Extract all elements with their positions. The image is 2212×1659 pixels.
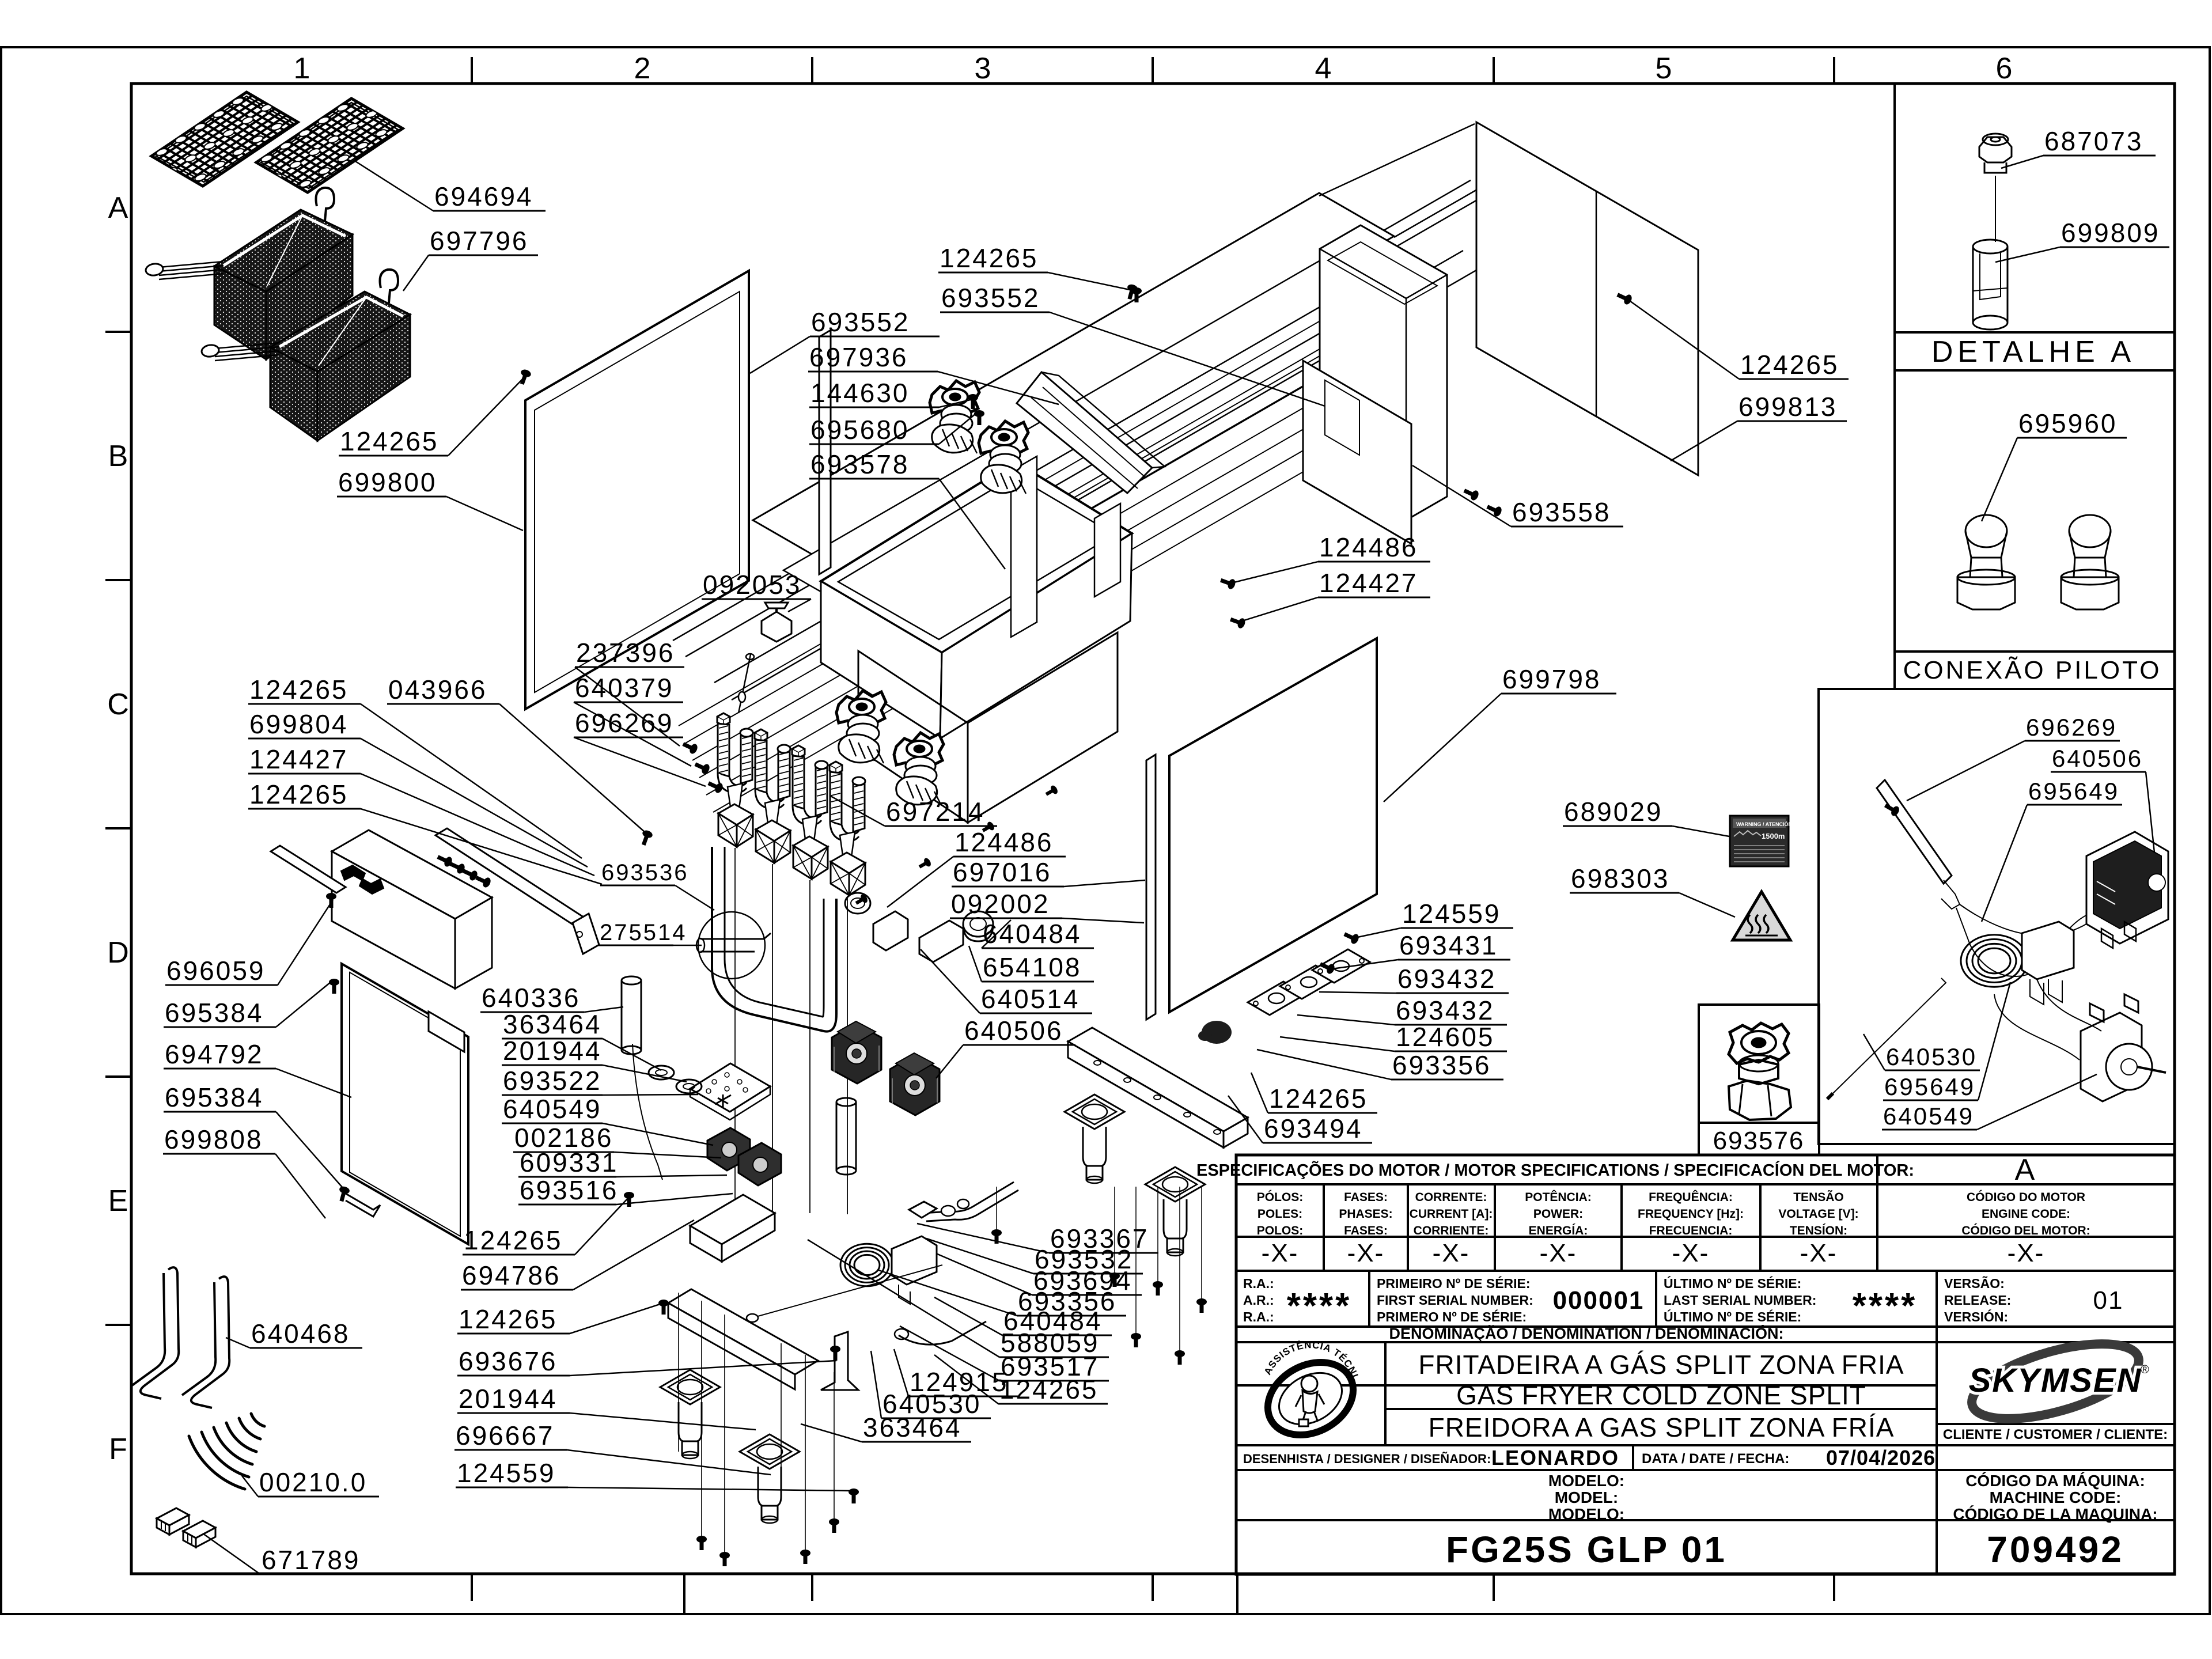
svg-text:ENERGÍA:: ENERGÍA: bbox=[1529, 1224, 1588, 1237]
svg-text:MODEL:: MODEL: bbox=[1555, 1488, 1618, 1506]
svg-text:124427: 124427 bbox=[1319, 568, 1418, 598]
svg-text:693676: 693676 bbox=[459, 1346, 558, 1376]
svg-text:CÓDIGO DA MÁQUINA:: CÓDIGO DA MÁQUINA: bbox=[1965, 1472, 2145, 1490]
svg-text:F: F bbox=[109, 1433, 127, 1466]
svg-text:01: 01 bbox=[2093, 1286, 2124, 1315]
svg-text:POLOS:: POLOS: bbox=[1257, 1224, 1304, 1237]
svg-text:FASES:: FASES: bbox=[1344, 1224, 1388, 1237]
svg-text:B: B bbox=[108, 440, 128, 473]
svg-text:FREIDORA A GAS SPLIT ZONA FRÍA: FREIDORA A GAS SPLIT ZONA FRÍA bbox=[1429, 1412, 1895, 1442]
svg-text:695649: 695649 bbox=[2028, 778, 2119, 805]
svg-text:696667: 696667 bbox=[456, 1421, 555, 1450]
svg-text:LEONARDO: LEONARDO bbox=[1491, 1446, 1619, 1469]
svg-text:124559: 124559 bbox=[457, 1458, 556, 1488]
svg-text:TENSÃO: TENSÃO bbox=[1793, 1191, 1844, 1204]
svg-text:VERSÃO:: VERSÃO: bbox=[1944, 1275, 2005, 1291]
svg-text:CÓDIGO DE LA MAQUINA:: CÓDIGO DE LA MAQUINA: bbox=[1953, 1505, 2157, 1523]
svg-text:ESPECIFICAÇÕES DO MOTOR / MOTO: ESPECIFICAÇÕES DO MOTOR / MOTOR SPECIFIC… bbox=[1196, 1160, 1914, 1180]
svg-text:A: A bbox=[2015, 1153, 2035, 1187]
svg-text:697936: 697936 bbox=[809, 342, 908, 372]
svg-text:PRIMERO Nº DE SÉRIE:: PRIMERO Nº DE SÉRIE: bbox=[1377, 1309, 1527, 1324]
svg-text:693494: 693494 bbox=[1264, 1113, 1363, 1143]
svg-text:4: 4 bbox=[1315, 52, 1332, 85]
svg-text:CORRENTE:: CORRENTE: bbox=[1415, 1191, 1487, 1204]
svg-text:640506: 640506 bbox=[964, 1016, 1063, 1046]
svg-text:696269: 696269 bbox=[575, 708, 674, 738]
svg-text:POTÊNCIA:: POTÊNCIA: bbox=[1525, 1190, 1592, 1204]
svg-text:275514: 275514 bbox=[600, 920, 687, 945]
svg-text:MODELO:: MODELO: bbox=[1548, 1472, 1624, 1490]
svg-text:124265: 124265 bbox=[1740, 350, 1839, 380]
svg-text:2: 2 bbox=[634, 52, 651, 85]
svg-text:696269: 696269 bbox=[2026, 714, 2117, 741]
svg-text:CURRENT [A]:: CURRENT [A]: bbox=[1410, 1207, 1493, 1221]
svg-text:000001: 000001 bbox=[1553, 1286, 1645, 1315]
svg-text:693432: 693432 bbox=[1397, 964, 1497, 994]
svg-text:PÓLOS:: PÓLOS: bbox=[1257, 1190, 1304, 1204]
svg-text:124265: 124265 bbox=[340, 426, 439, 456]
svg-text:FASES:: FASES: bbox=[1344, 1191, 1388, 1204]
svg-text:654108: 654108 bbox=[983, 952, 1082, 982]
svg-text:-X-: -X- bbox=[1262, 1239, 1299, 1267]
svg-text:PRIMEIRO Nº DE SÉRIE:: PRIMEIRO Nº DE SÉRIE: bbox=[1377, 1275, 1531, 1291]
svg-text:693356: 693356 bbox=[1392, 1050, 1491, 1080]
svg-text:CÓDIGO DO MOTOR: CÓDIGO DO MOTOR bbox=[1967, 1190, 2085, 1204]
svg-text:609331: 609331 bbox=[520, 1147, 619, 1177]
svg-text:ÚLTIMO Nº DE SÉRIE:: ÚLTIMO Nº DE SÉRIE: bbox=[1664, 1309, 1801, 1324]
svg-text:640379: 640379 bbox=[575, 673, 674, 703]
svg-text:124265: 124265 bbox=[464, 1225, 563, 1255]
svg-text:124265: 124265 bbox=[249, 779, 349, 809]
svg-text:671789: 671789 bbox=[262, 1545, 361, 1575]
svg-text:124265: 124265 bbox=[940, 243, 1039, 273]
svg-text:693578: 693578 bbox=[810, 449, 910, 479]
svg-text:-X-: -X- bbox=[1800, 1239, 1838, 1267]
svg-text:00210.0: 00210.0 bbox=[259, 1467, 367, 1497]
svg-text:07/04/2026: 07/04/2026 bbox=[1826, 1446, 1935, 1469]
svg-text:CÓDIGO DEL MOTOR:: CÓDIGO DEL MOTOR: bbox=[1961, 1224, 2090, 1237]
svg-text:124486: 124486 bbox=[1319, 532, 1418, 562]
svg-text:640530: 640530 bbox=[1886, 1043, 1977, 1070]
svg-text:124486: 124486 bbox=[955, 827, 1054, 857]
svg-text:640506: 640506 bbox=[2052, 745, 2143, 772]
svg-text:695384: 695384 bbox=[165, 1082, 264, 1112]
svg-text:MODELO:: MODELO: bbox=[1548, 1505, 1624, 1523]
svg-text:FIRST SERIAL NUMBER:: FIRST SERIAL NUMBER: bbox=[1377, 1293, 1533, 1308]
svg-text:-X-: -X- bbox=[1433, 1239, 1470, 1267]
svg-text:POLES:: POLES: bbox=[1257, 1207, 1302, 1221]
svg-text:124265: 124265 bbox=[459, 1304, 558, 1334]
svg-text:693431: 693431 bbox=[1399, 930, 1498, 960]
svg-text:1500m: 1500m bbox=[1762, 832, 1785, 840]
svg-text:RELEASE:: RELEASE: bbox=[1944, 1293, 2011, 1308]
svg-text:689029: 689029 bbox=[1564, 797, 1663, 827]
svg-text:-X-: -X- bbox=[1347, 1239, 1385, 1267]
svg-text:124265: 124265 bbox=[999, 1374, 1099, 1404]
svg-text:694786: 694786 bbox=[462, 1260, 561, 1290]
svg-text:699800: 699800 bbox=[338, 467, 437, 497]
svg-text:LAST SERIAL NUMBER:: LAST SERIAL NUMBER: bbox=[1664, 1293, 1816, 1308]
svg-text:C: C bbox=[107, 688, 129, 721]
svg-text:201944: 201944 bbox=[459, 1384, 558, 1414]
svg-text:687073: 687073 bbox=[2044, 126, 2143, 156]
svg-text:DESENHISTA / DESIGNER / DISEÑA: DESENHISTA / DESIGNER / DISEÑADOR: bbox=[1243, 1452, 1491, 1466]
svg-text:-X-: -X- bbox=[1672, 1239, 1710, 1267]
svg-text:144630: 144630 bbox=[810, 378, 910, 408]
svg-text:640514: 640514 bbox=[981, 984, 1080, 1014]
svg-text:693536: 693536 bbox=[601, 860, 688, 885]
svg-text:ENGINE CODE:: ENGINE CODE: bbox=[1982, 1207, 2070, 1221]
svg-text:PHASES:: PHASES: bbox=[1339, 1207, 1392, 1221]
svg-text:693552: 693552 bbox=[941, 283, 1040, 313]
svg-text:201944: 201944 bbox=[503, 1036, 602, 1066]
svg-text:D: D bbox=[107, 936, 129, 969]
svg-text:124605: 124605 bbox=[1396, 1022, 1495, 1052]
svg-text:695649: 695649 bbox=[1884, 1073, 1975, 1100]
svg-text:DETALHE A: DETALHE A bbox=[1931, 335, 2135, 369]
svg-text:699813: 699813 bbox=[1738, 392, 1838, 422]
svg-text:693516: 693516 bbox=[520, 1175, 619, 1205]
svg-text:POWER:: POWER: bbox=[1533, 1207, 1583, 1221]
svg-text:709492: 709492 bbox=[1987, 1529, 2124, 1570]
svg-text:A: A bbox=[108, 191, 128, 225]
svg-text:TENSÍON:: TENSÍON: bbox=[1790, 1224, 1847, 1237]
svg-text:DENOMINAÇÃO / DENOMINATION / D: DENOMINAÇÃO / DENOMINATION / DENOMINACIÓ… bbox=[1389, 1324, 1784, 1342]
svg-text:695680: 695680 bbox=[810, 415, 910, 445]
svg-text:092002: 092002 bbox=[951, 889, 1050, 919]
svg-text:DATA / DATE / FECHA:: DATA / DATE / FECHA: bbox=[1642, 1451, 1789, 1467]
svg-text:699809: 699809 bbox=[2061, 218, 2160, 248]
svg-text:SKYMSEN: SKYMSEN bbox=[1969, 1362, 2142, 1399]
svg-text:MACHINE CODE:: MACHINE CODE: bbox=[1990, 1488, 2122, 1506]
svg-text:3: 3 bbox=[975, 52, 991, 85]
svg-text:****: **** bbox=[1287, 1286, 1352, 1326]
svg-text:CONEXÃO PILOTO: CONEXÃO PILOTO bbox=[1903, 656, 2162, 684]
svg-text:697214: 697214 bbox=[886, 797, 985, 827]
svg-text:693432: 693432 bbox=[1396, 995, 1495, 1025]
svg-text:FREQUÊNCIA:: FREQUÊNCIA: bbox=[1649, 1190, 1733, 1204]
svg-text:695960: 695960 bbox=[2018, 408, 2118, 438]
svg-text:FRECUENCIA:: FRECUENCIA: bbox=[1649, 1224, 1733, 1237]
svg-text:FRITADEIRA A GÁS SPLIT ZONA FR: FRITADEIRA A GÁS SPLIT ZONA FRIA bbox=[1418, 1350, 1904, 1380]
svg-text:092053: 092053 bbox=[703, 570, 802, 600]
svg-text:FG25S GLP 01: FG25S GLP 01 bbox=[1446, 1529, 1727, 1570]
svg-text:640336: 640336 bbox=[482, 983, 581, 1013]
svg-text:WARNING / ATENCIÓN: WARNING / ATENCIÓN bbox=[1736, 821, 1792, 827]
svg-text:696059: 696059 bbox=[166, 956, 266, 986]
svg-text:CORRIENTE:: CORRIENTE: bbox=[1414, 1224, 1489, 1237]
svg-text:693552: 693552 bbox=[811, 307, 910, 337]
svg-text:698303: 698303 bbox=[1571, 863, 1670, 893]
svg-text:5: 5 bbox=[1656, 52, 1672, 85]
svg-text:®: ® bbox=[2141, 1363, 2149, 1376]
svg-text:693522: 693522 bbox=[503, 1066, 602, 1096]
svg-text:CLIENTE / CUSTOMER / CLIENTE:: CLIENTE / CUSTOMER / CLIENTE: bbox=[1943, 1427, 2168, 1442]
svg-text:363464: 363464 bbox=[863, 1412, 962, 1442]
svg-text:VOLTAGE [V]:: VOLTAGE [V]: bbox=[1778, 1207, 1858, 1221]
svg-text:-X-: -X- bbox=[2008, 1239, 2045, 1267]
svg-text:R.A.:: R.A.: bbox=[1243, 1309, 1274, 1324]
svg-text:043966: 043966 bbox=[388, 675, 487, 704]
svg-text:6: 6 bbox=[1996, 52, 2013, 85]
svg-text:640549: 640549 bbox=[503, 1094, 602, 1124]
svg-text:124559: 124559 bbox=[1402, 899, 1501, 929]
svg-text:237396: 237396 bbox=[576, 638, 675, 668]
svg-text:699804: 699804 bbox=[249, 709, 349, 739]
svg-text:640549: 640549 bbox=[1883, 1103, 1974, 1130]
svg-text:694694: 694694 bbox=[434, 181, 533, 211]
svg-text:363464: 363464 bbox=[503, 1009, 602, 1039]
svg-text:695384: 695384 bbox=[165, 998, 264, 1028]
svg-text:R.A.:: R.A.: bbox=[1243, 1276, 1274, 1291]
svg-text:****: **** bbox=[1853, 1286, 1918, 1326]
svg-text:124427: 124427 bbox=[249, 744, 349, 774]
svg-text:VERSIÓN:: VERSIÓN: bbox=[1944, 1309, 2008, 1324]
svg-text:ÚLTIMO Nº DE SÉRIE:: ÚLTIMO Nº DE SÉRIE: bbox=[1664, 1275, 1801, 1291]
svg-text:A.R.:: A.R.: bbox=[1243, 1293, 1274, 1308]
svg-text:FREQUENCY [Hz]:: FREQUENCY [Hz]: bbox=[1638, 1207, 1744, 1221]
svg-text:697796: 697796 bbox=[430, 226, 529, 256]
svg-text:GAS FRYER COLD ZONE SPLIT: GAS FRYER COLD ZONE SPLIT bbox=[1456, 1380, 1866, 1410]
svg-text:699798: 699798 bbox=[1502, 664, 1601, 694]
svg-text:693558: 693558 bbox=[1512, 497, 1611, 527]
svg-text:1: 1 bbox=[294, 52, 310, 85]
svg-text:-X-: -X- bbox=[1540, 1239, 1577, 1267]
svg-text:124265: 124265 bbox=[249, 675, 349, 704]
svg-text:E: E bbox=[108, 1184, 128, 1218]
svg-text:693576: 693576 bbox=[1713, 1127, 1805, 1155]
svg-text:694792: 694792 bbox=[165, 1039, 264, 1069]
svg-text:699808: 699808 bbox=[164, 1124, 263, 1154]
svg-text:697016: 697016 bbox=[953, 857, 1052, 887]
svg-text:640468: 640468 bbox=[251, 1319, 350, 1349]
svg-text:124265: 124265 bbox=[1269, 1084, 1368, 1113]
